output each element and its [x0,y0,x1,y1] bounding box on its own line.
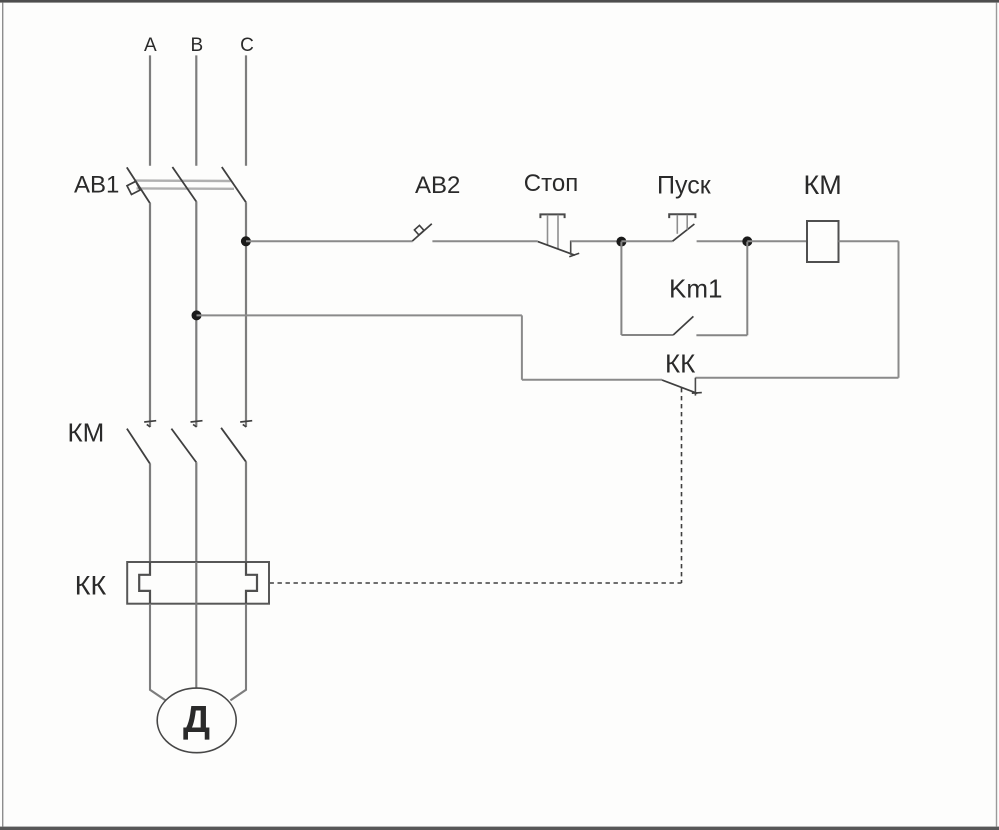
wire control from C tap to AB2 [246,240,413,242]
circuit breaker AB2 square [414,225,424,235]
circuit breaker AB2 blade [412,224,431,241]
wire phase B to motor [195,604,197,689]
node junction on phase C [241,236,251,246]
wire Km1 branch right horizontal [696,334,747,336]
pushbutton Pusk actuator bar [669,214,695,218]
contactor KM pole C terminal tick [240,421,252,427]
wire phase B lower [195,462,197,562]
svg-text:КМ: КМ [804,170,842,200]
wire phase B top [195,55,197,165]
node junction on phase B [192,310,202,320]
wire B tap horizontal [197,314,522,316]
wire phase A top [149,55,151,165]
wire right side vertical [898,241,900,378]
pushbutton Stop blade tick [569,253,579,257]
pushbutton Stop actuator stems [547,215,549,246]
pushbutton Stop actuator bar [540,214,564,218]
circuit breaker AB1 pole C blade [222,167,246,202]
wire Km1 branch left horizontal [621,334,673,336]
thermal relay heater phase A [139,562,150,604]
svg-text:С: С [240,35,254,56]
svg-text:Km1: Km1 [669,274,722,304]
node junction right of Pusk [742,236,752,246]
wire Pusk to junction [697,240,748,242]
pushbutton Stop right terminal [570,241,572,255]
circuit breaker AB1 pole A blade [127,167,150,203]
thermal contact KK NC blade [662,380,697,393]
wire phase C to motor [230,604,246,701]
wire Stop to junction [571,240,622,242]
svg-text:КК: КК [75,571,107,601]
contactor KM pole C blade [221,428,246,462]
contactor KM pole A terminal tick [144,421,156,427]
contactor coil KM box [807,221,839,262]
motor D circle [157,688,236,753]
svg-text:Д: Д [183,699,210,741]
svg-text:В: В [190,35,203,56]
svg-text:А: А [144,35,157,56]
dashed mechanical link horizontal [270,582,682,584]
wire phase A middle [149,203,151,427]
dashed mechanical link vertical [681,388,683,583]
svg-text:АВ2: АВ2 [415,172,460,199]
contactor KM pole B blade [171,429,196,463]
svg-text:КМ: КМ [68,418,105,448]
thermal relay heater phase C [246,562,257,604]
wire phase C lower [245,462,247,562]
wire Km1 branch right vertical [746,242,748,336]
svg-text:Стоп: Стоп [524,170,578,197]
thermal relay KK box [127,562,269,604]
wire phase A to motor [150,604,166,701]
svg-text:АВ1: АВ1 [74,172,119,199]
thermal relay heater phase B wire [195,562,197,604]
wire phase C middle [245,202,247,427]
circuit breaker AB1 crossbar [134,181,234,189]
wire bottom return to KK contact [695,377,898,379]
circuit breaker AB1 pole A square [127,181,140,194]
relay contact Km1 NO blade [673,316,693,335]
pushbutton Pusk NO blade [673,224,695,241]
wire junction to Pusk [621,240,672,242]
pushbutton Pusk actuator stems [676,215,678,234]
wire to KK contact left [522,379,662,381]
node junction left of Pusk [616,237,626,247]
wire phase A lower [149,464,151,562]
wire phase C top [245,55,247,165]
wire junction to KM coil [747,240,807,242]
svg-text:КК: КК [665,349,695,379]
thermal contact KK right terminal [694,378,696,396]
wire AB2 to Stop button [432,240,537,242]
wire Km1 branch left vertical [620,242,622,335]
wire phase B middle [195,201,197,426]
thermal contact KK terminal tick [692,392,702,395]
contactor KM pole B terminal tick [191,421,203,427]
wire B tap corner vertical [521,315,523,379]
circuit breaker AB1 pole B blade [172,167,196,202]
svg-text:Пуск: Пуск [657,172,712,200]
pushbutton Stop NC blade [538,242,575,256]
contactor KM pole A blade [127,429,150,464]
wire KM coil to right corner [839,240,899,242]
